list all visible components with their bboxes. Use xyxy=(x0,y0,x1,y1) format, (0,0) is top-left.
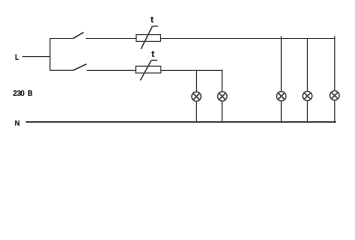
wire lamp EL3 to N xyxy=(280,101,282,123)
wire drop to lamp EL2 xyxy=(221,70,223,92)
wire drop to lamp EL3 xyxy=(280,36,282,91)
switch S2 blade xyxy=(73,64,86,70)
wire S2 to thermal switch xyxy=(87,69,136,71)
lamp EL4 xyxy=(303,91,312,100)
lamp EL3 xyxy=(277,92,286,101)
wire drop to lamp EL5 xyxy=(334,36,336,91)
label 230 V supply digit 3 xyxy=(17,90,21,95)
thermal switch SK1 actuator diagonal xyxy=(141,26,152,49)
node N label xyxy=(15,121,19,126)
node L label xyxy=(16,54,19,59)
wire top stub to switch S1 xyxy=(50,38,74,40)
lamp EL1 xyxy=(192,92,201,101)
wire lamp EL5 to N xyxy=(334,100,336,122)
wire junction vertical xyxy=(49,38,51,71)
lamp EL5 xyxy=(330,91,339,100)
label 230 V supply digit 2 xyxy=(13,90,17,95)
wire bottom stub to switch S2 xyxy=(50,69,74,71)
lamp EL2 xyxy=(218,92,227,101)
wire drop to lamp EL4 xyxy=(306,39,308,92)
wire L feed xyxy=(22,56,50,58)
label 230 V supply letter V xyxy=(28,90,32,95)
switch S1 blade xyxy=(73,32,84,38)
label t of SK1 xyxy=(151,17,154,23)
thermal switch SK1 actuator tick xyxy=(152,25,158,27)
wire S1 to thermal switch xyxy=(86,38,136,40)
label t of SK2 xyxy=(152,51,155,57)
thermal switch SK2 body xyxy=(136,66,161,73)
wire lamp EL2 to N xyxy=(221,101,223,122)
wire lamp EL4 to N xyxy=(306,101,308,123)
label 230 V supply digit 0 xyxy=(21,90,25,95)
thermal switch SK1 body xyxy=(136,35,160,42)
wire bottom bus xyxy=(161,69,223,71)
wire lamp EL1 to N xyxy=(195,101,197,122)
wire top bus xyxy=(161,38,336,40)
wire drop to lamp EL1 xyxy=(196,70,198,92)
neutral bus N xyxy=(26,121,336,123)
thermal switch SK2 actuator tick xyxy=(151,59,157,61)
thermal switch SK2 actuator diagonal xyxy=(140,60,151,80)
